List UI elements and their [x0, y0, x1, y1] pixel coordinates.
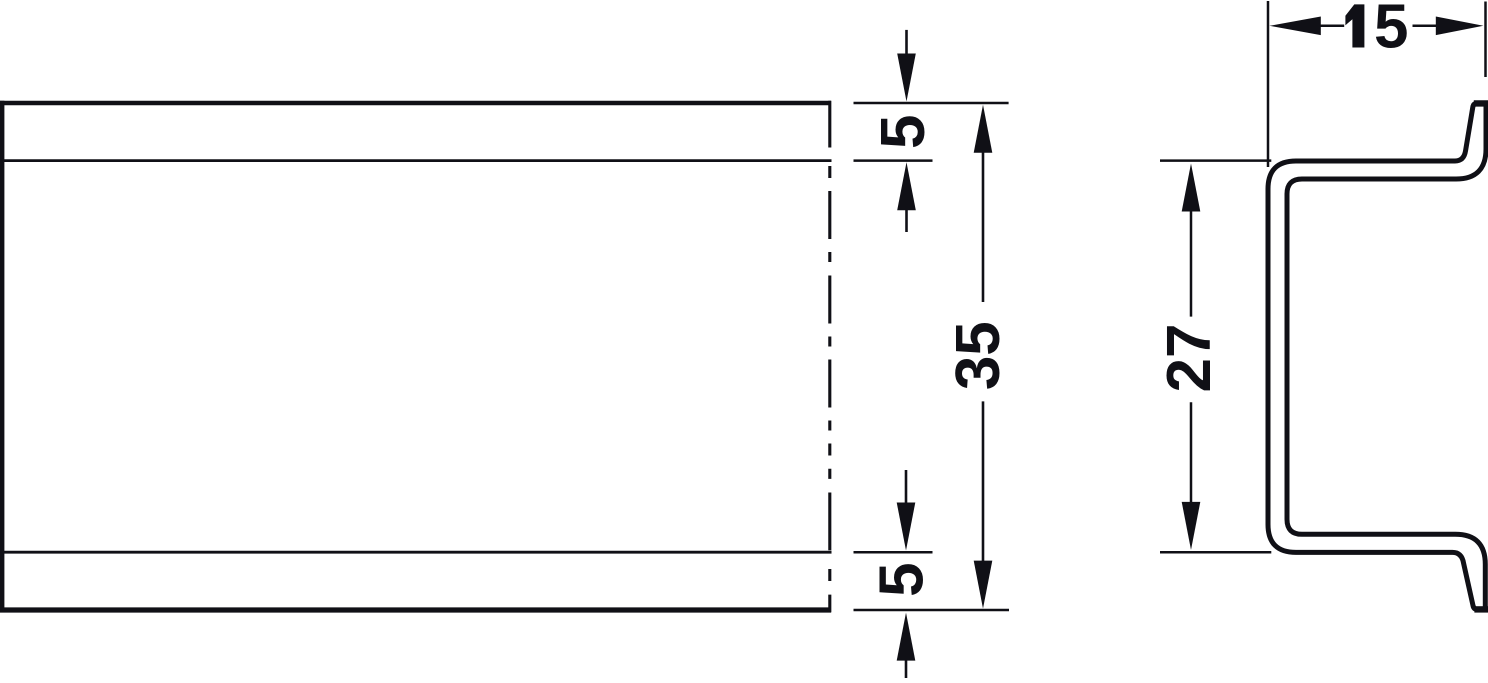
svg-text:35: 35	[944, 321, 1013, 390]
svg-text:27: 27	[1155, 324, 1224, 393]
svg-text:5: 5	[868, 562, 937, 596]
svg-text:5: 5	[869, 115, 938, 149]
svg-text:5: 5	[1374, 0, 1408, 62]
